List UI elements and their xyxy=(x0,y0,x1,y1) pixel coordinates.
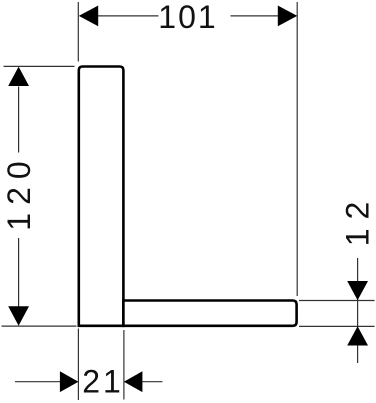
svg-text:21: 21 xyxy=(82,364,124,400)
arrow 101 left xyxy=(79,6,98,27)
dimension line 12 xyxy=(357,258,359,363)
arrow 120 down xyxy=(8,306,29,325)
extension line left bottom xyxy=(2,325,77,327)
extension line top-right xyxy=(296,2,298,296)
extension line right bottom xyxy=(299,325,375,327)
arrow 101 right xyxy=(278,6,297,27)
extension line bottom-left xyxy=(77,329,79,401)
svg-text:101: 101 xyxy=(158,0,217,35)
dimension line 120 upper segment xyxy=(18,87,20,153)
extension line top-left xyxy=(77,2,79,62)
dimension line 101 left segment xyxy=(97,15,159,17)
dimension line 21 right tail xyxy=(142,381,163,383)
extension line left top xyxy=(4,65,75,67)
dimension line 21 left tail xyxy=(15,381,60,383)
arrow 12 down xyxy=(347,281,368,300)
horizontal bar of L-profile xyxy=(123,301,296,326)
svg-text:12: 12 xyxy=(339,193,375,247)
dimension line 120 lower segment xyxy=(18,238,20,307)
vertical bar of L-profile xyxy=(79,67,124,326)
extension line bottom-right xyxy=(123,330,125,400)
dimension line 101 right segment xyxy=(231,15,279,17)
arrow 21 right xyxy=(124,371,142,392)
arrow 21 left xyxy=(60,371,79,392)
arrow 120 up xyxy=(8,67,29,86)
extension line right top xyxy=(299,300,375,302)
arrow 12 up xyxy=(347,326,368,345)
svg-text:120: 120 xyxy=(1,153,37,230)
